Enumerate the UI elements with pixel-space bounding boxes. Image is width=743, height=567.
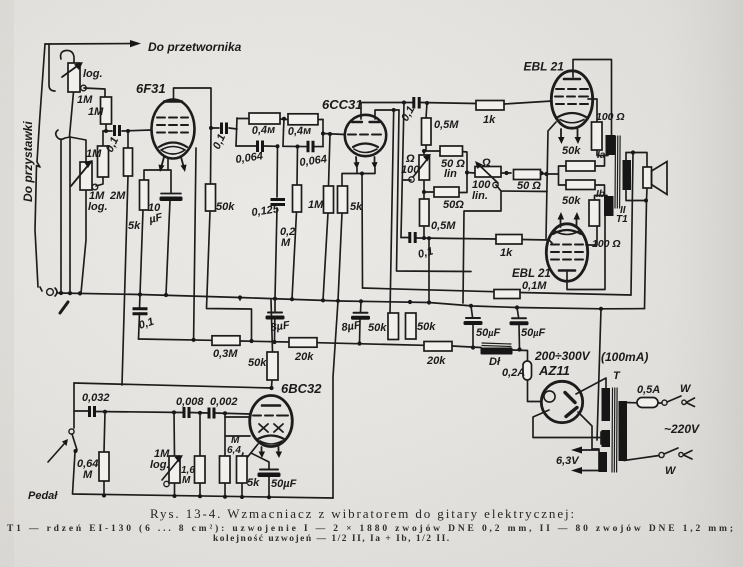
resistor 1k (upper grid stopper) [476, 101, 504, 111]
wire: bridged-T right node [322, 120, 324, 147]
resistor 1M (ch2 series) [98, 146, 109, 177]
svg-text:log.: log. [88, 201, 108, 213]
wire: 8uF2 between 0.125 line and rail [274, 299, 277, 342]
svg-text:1M: 1M [86, 148, 102, 160]
wire: II winding bottom return [626, 188, 647, 309]
resistor 5k (6BC32 cathode) [237, 456, 248, 483]
fuse 0,2A [523, 361, 532, 380]
wire: AZ11 filament return [533, 410, 601, 444]
wire: 6BC32 grid row [225, 416, 250, 418]
tube AZ11 [541, 381, 582, 422]
input jack symbol 0) [40, 287, 42, 291]
capacitor 0,1 (lower coupling to EBL21) [410, 232, 415, 243]
svg-text:1k: 1k [500, 247, 513, 259]
jack contact curl (channel 1) [61, 50, 74, 63]
svg-text:0,3M: 0,3M [213, 348, 238, 360]
svg-text:50 Ω: 50 Ω [517, 180, 541, 192]
resistor 100ohm (lower screen) [589, 200, 600, 226]
tube 6F31 [152, 100, 195, 159]
svg-text:6BC32: 6BC32 [281, 381, 322, 396]
wire: NFB riser to rail P [361, 174, 364, 289]
heater arrows 6F31 [161, 157, 164, 168]
wire: 50uF2 stubs [517, 308, 520, 350]
wire: 50k bottom, B+ step to rail [207, 211, 252, 341]
svg-text:0,5A: 0,5A [637, 384, 660, 396]
capacitor 0,1 (upper coupling to EBL21) [414, 97, 419, 109]
wire: B+ rail G [139, 339, 528, 361]
wire: 6CC31 anode2 row y110 [375, 110, 399, 119]
resistor 6,4M [220, 456, 231, 483]
capacitor 0,002 [209, 408, 214, 419]
capacitor 0,1 (screen bypass at bus) [133, 309, 148, 314]
svg-text:~220V: ~220V [664, 422, 700, 436]
wire: 8uF1 stub from bus [360, 301, 362, 343]
svg-text:0,1M: 0,1M [522, 280, 547, 292]
resistor 0,4M (right) [288, 114, 318, 125]
wire: pot 1M log top stub [173, 412, 176, 456]
wire: bridged-T mid riser [283, 119, 286, 130]
wire: pot1 wiper to 1M grid resistor [84, 88, 105, 97]
wire: vibrato box left edge + bottom edge [73, 383, 334, 498]
capacitor 0,064 (left) [258, 141, 263, 153]
wire: II winding to speaker top [626, 153, 647, 168]
wire: anode load 50k top stub [210, 128, 213, 184]
svg-text:5k: 5k [128, 220, 141, 232]
svg-text:0,4м: 0,4м [288, 125, 312, 138]
svg-text:50µF: 50µF [271, 478, 297, 490]
wire: 50ohm1 right + 50ohm2 right joined vertical [459, 152, 475, 193]
resistor 0,2M [293, 185, 302, 212]
wire: 6F31 anode riser [174, 88, 212, 128]
wire: ground bus [58, 293, 645, 309]
resistor 0,64M [99, 452, 109, 481]
power transformer T core [612, 388, 617, 472]
wire: 6.4M top stub + grid wire [225, 413, 250, 456]
svg-text:1M: 1M [77, 94, 93, 106]
tube EBL21 (lower, inverted) [546, 224, 587, 281]
capacitor 0,064 (right) [308, 141, 313, 153]
node: 1M ch2 top stub [102, 131, 104, 146]
resistor 0,4M (left) [249, 113, 280, 124]
output transformer T1 core [615, 136, 620, 208]
svg-text:Dł: Dł [489, 356, 501, 368]
wire: bridged-T top rail [237, 119, 323, 120]
wire: 5k cathode 6CC31 bottom through box edge [333, 213, 342, 498]
wire: x429 stub to bus [428, 238, 430, 302]
wire: 50k H1 right to Ia bottom node [595, 156, 608, 167]
resistor 20k (left) [289, 338, 317, 348]
svg-text:50k: 50k [562, 145, 581, 157]
svg-text:M: M [83, 469, 93, 481]
svg-text:log.: log. [83, 68, 103, 80]
potentiometer 1M log (channel 1) [68, 63, 80, 92]
output transformer T1 winding Ib [604, 196, 614, 216]
svg-text:20k: 20k [294, 351, 314, 363]
wire: mains switch top lead [658, 402, 662, 404]
junction dots on ground bus [59, 291, 63, 295]
resistor 0,5M (lower divider) [420, 199, 430, 226]
capacitor 8uF (right electrolytic) [354, 312, 368, 314]
svg-text:50k: 50k [562, 195, 581, 207]
switch blade slash at input [60, 302, 68, 313]
tube 6BC32 [250, 396, 293, 447]
speaker [643, 167, 652, 188]
resistor 100ohm (upper screen) [592, 122, 603, 150]
wire: pot2 out to 50ohm3 [501, 172, 511, 174]
wire: vibrato osc row y412 [74, 411, 250, 414]
fuse 0,5A [637, 398, 658, 408]
resistor 5k (6CC31 cathode) [338, 186, 348, 213]
svg-text:Ib: Ib [596, 189, 605, 200]
svg-text:kolejność uzwojeń — 1/2 II, Ia: kolejność uzwojeń — 1/2 II, Ia + Ib, 1/2… [213, 534, 451, 544]
wire: pot1 wiper tap to x404 vertical [403, 179, 412, 181]
svg-text:6,3V: 6,3V [556, 455, 580, 467]
svg-text:100 Ω: 100 Ω [596, 111, 625, 123]
wire: 1M ch2 bottom to wiper area [96, 177, 103, 186]
resistor 2M [124, 148, 133, 176]
power transformer T HV winding [602, 388, 611, 421]
node: 1M bottom to grid row [105, 124, 107, 131]
capacitor 50uF (left electrolytic) [466, 317, 480, 319]
svg-text:Pedał: Pedał [28, 490, 58, 502]
wire: EBL21 bottom anode loop [567, 216, 605, 290]
wire: 100ohm D top stub [595, 196, 605, 201]
switch W (top) [662, 400, 667, 405]
capacitor 0,008 [184, 407, 189, 418]
wire: 50k V3 from bus to box [239, 298, 241, 301]
pedal arrow [48, 444, 64, 462]
wire: 6BC32 cathode diagonal [246, 444, 269, 469]
svg-text:100: 100 [401, 164, 420, 176]
capacitor 0,032 [90, 406, 95, 417]
svg-text:6CC31: 6CC31 [322, 97, 362, 112]
wire: 0.5M bottom to 50ohm row [426, 145, 440, 151]
wire: mid node down through 0.125 to bus [275, 130, 284, 299]
wire: 6CC31 anode1 riser [360, 103, 362, 120]
resistor 50ohm (upper) [440, 146, 463, 156]
tube EBL21 (upper) [551, 71, 592, 128]
resistor 0,3M [212, 336, 240, 346]
capacitor 10uF (electrolytic) [161, 193, 181, 195]
potentiometer 1M log (channel 2) [80, 162, 92, 190]
wire: 0.5M top stub [426, 103, 427, 118]
svg-text:100 Ω: 100 Ω [592, 238, 621, 250]
svg-text:0,032: 0,032 [82, 392, 110, 404]
wire: bridged-T cap rail [236, 145, 323, 148]
svg-text:Rys. 13-4. Wzmacniacz z wibrat: Rys. 13-4. Wzmacniacz z wibratorem do gi… [150, 506, 576, 521]
resistor 1M (grid ch1) [101, 97, 112, 124]
wire: 50uF1 stubs [471, 306, 473, 348]
wire: 50k H2 right to Ib top node [595, 185, 607, 196]
capacitor 8uF (left electrolytic) [268, 312, 282, 314]
wire: pot1 vibrato top stub [423, 151, 425, 155]
potentiometer 100ohm lin (horizontal) [475, 167, 501, 178]
arrowhead Do przetwornika [130, 40, 141, 47]
wire: coupling row to bridged-T left node [229, 128, 237, 129]
svg-text:50Ω: 50Ω [443, 199, 464, 211]
wire: vibrato box top edge [74, 383, 272, 388]
resistor 0,5M (upper divider) [422, 118, 432, 145]
svg-text:50k: 50k [248, 357, 267, 369]
resistor 1k (lower grid stopper) [496, 235, 522, 245]
switch W (bottom) [659, 452, 664, 457]
wire: 2M bottom down to vibrato box top [122, 176, 128, 385]
wire: mains bottom lead [624, 456, 659, 461]
wire: 0.2M stub from cap rail [292, 147, 298, 300]
heater arrows EBL21 lower (pointing up) [560, 218, 562, 227]
svg-text:200÷300V: 200÷300V [534, 349, 591, 363]
wire: 10uF bottom to bus [166, 200, 170, 295]
resistor 50k (decoupling V1) [388, 313, 399, 340]
svg-text:1k: 1k [483, 114, 496, 126]
wire: 6F31 anode to coupling row [211, 127, 219, 129]
wire: 0.64M top stub [104, 412, 105, 452]
svg-text:5k: 5k [247, 477, 260, 489]
resistor 1M (6CC31 grid) [324, 186, 334, 213]
output transformer T1 winding Ia [606, 135, 616, 155]
svg-text:T1: T1 [616, 214, 628, 225]
wire: pot1 bottom down [70, 92, 74, 136]
svg-text:6F31: 6F31 [136, 81, 166, 96]
resistor 50ohm (lower) [434, 187, 459, 197]
wire: 1M grid leak 6CC31 [323, 134, 330, 300]
svg-text:Do przetwornika: Do przetwornika [148, 40, 242, 54]
svg-text:50µF: 50µF [521, 327, 545, 339]
wire: pot2 wiper run [463, 185, 547, 303]
svg-text:1M: 1M [88, 106, 104, 118]
svg-text:log.: log. [150, 459, 170, 471]
wire: grid row of 6F31 (y131) [103, 130, 112, 132]
resistor 5k (6F31 cathode) [140, 180, 149, 210]
svg-text:20k: 20k [426, 355, 446, 367]
tube 6CC31 [345, 115, 386, 156]
svg-text:Do przystawki: Do przystawki [21, 121, 35, 202]
wire: lower coupling row y238 [401, 238, 552, 244]
power transformer T rectifier heater winding [602, 430, 611, 447]
wire: long balance vertical x547 [546, 122, 556, 239]
svg-text:0,4м: 0,4м [252, 124, 276, 137]
wire: x404 vertical top row to lower coupling row [401, 103, 404, 238]
wire: vibrato bottom row stubs [104, 477, 269, 497]
wire: channel-2 verticals to ground bus [60, 140, 62, 293]
resistor 20k (right) [424, 342, 452, 352]
wire: inner vertical jack contact [49, 44, 55, 91]
svg-text:lin: lin [444, 168, 457, 180]
svg-text:2M: 2M [109, 190, 126, 202]
wire: pot2 top stub [70, 137, 86, 162]
wire: EBL21 top screen [588, 99, 597, 122]
wire: 6CC31 cathode row [342, 168, 375, 186]
resistor 50k (upper feedback) [566, 161, 595, 171]
capacitor 50uF (right electrolytic) [512, 317, 526, 319]
svg-text:M: M [182, 475, 191, 486]
wire: output to converter (top) [45, 43, 131, 46]
potentiometer 100ohm lin (vertical) [419, 155, 430, 180]
wire: 6.3V leads with arrows [577, 449, 599, 451]
capacitor 0,1 (ch1 input) [115, 125, 120, 136]
pedal switch contact [69, 429, 74, 434]
wire: pot2 bottom to bus [81, 190, 86, 293]
svg-text:T1 — rdzeń EI-130 (6 ... 8 cm²: T1 — rdzeń EI-130 (6 ... 8 cm²): uzwojen… [7, 523, 736, 534]
power transformer T 6.3V winding [599, 452, 608, 472]
capacitor 0,125 [271, 200, 286, 205]
heater arrows 6CC31 [355, 157, 358, 164]
wire: pot1 bottom to 50ohm2 row [424, 180, 434, 192]
svg-text:AZ11: AZ11 [538, 363, 570, 378]
wire: 5k vib top [242, 453, 243, 456]
svg-text:(100mA): (100mA) [601, 350, 648, 364]
resistor 50k (lower feedback) [566, 180, 595, 190]
node: 2M top stub [127, 131, 129, 148]
resistor 50k (V3 vibrato feed) [267, 352, 278, 380]
resistor 50k (decoupling V2) [406, 313, 417, 339]
svg-text:Ω: Ω [481, 157, 491, 169]
wire: 0.5M#2 top stub [423, 192, 425, 199]
heater arrows EBL21 upper [560, 129, 562, 139]
svg-text:6,4: 6,4 [227, 445, 241, 456]
svg-text:0,2A: 0,2A [502, 367, 525, 379]
wire: B+ vertical 100mA [597, 309, 601, 440]
wire: NFB rail riser to voice coil tap [631, 153, 633, 296]
wire: screen bypass 0.1 cap to bus [139, 295, 141, 340]
wire: 50k H resistors left stubs [547, 166, 567, 185]
svg-text:1M: 1M [308, 199, 324, 211]
jack contact curl (channel 2) [56, 130, 70, 139]
svg-text:0,008: 0,008 [176, 396, 204, 408]
wire: 0.5M#2 bottom to lower row [423, 226, 425, 238]
svg-text:50k: 50k [216, 201, 235, 213]
svg-text:50k: 50k [368, 322, 387, 334]
svg-text:lin.: lin. [472, 190, 488, 202]
svg-text:0,5M: 0,5M [434, 119, 459, 131]
choke Dl [482, 343, 511, 347]
wire: NFB rail P [363, 288, 632, 295]
potentiometer 1M log (vibrato) [169, 456, 180, 483]
svg-text:W: W [665, 465, 677, 477]
wire: 6F31 cathode row [144, 158, 171, 193]
resistor 50ohm (right) [514, 170, 541, 180]
resistor 1,6M [195, 456, 206, 483]
wire: 100ohm A bottom stub [597, 150, 605, 156]
wire: EBL21 top anode loop [573, 60, 612, 136]
resistor 0,1M (NFB) [494, 290, 520, 299]
svg-text:50µF: 50µF [476, 327, 500, 339]
svg-text:0,5M: 0,5M [431, 220, 456, 232]
svg-text:0,002: 0,002 [210, 396, 238, 408]
wire: left input vertical (jack hot) [35, 44, 45, 287]
capacitor 0,1 (6F31 coupling) [222, 123, 227, 135]
wire: screen 6F31 down to B+ rail [194, 148, 196, 339]
wire: 5k bottom to bus [140, 210, 143, 295]
svg-text:Ia: Ia [597, 150, 606, 161]
wire: fuse 0.2A to AZ11 [528, 380, 542, 402]
wire: bridged-T left node vertical [236, 118, 237, 146]
svg-text:50k: 50k [417, 321, 436, 333]
svg-text:EBL 21: EBL 21 [512, 268, 551, 280]
wire: AZ11 anode bottom lead [578, 412, 599, 449]
wire: 50ohm3 right to feedback node [537, 173, 547, 174]
wire: 50k load1 long vertical [390, 110, 394, 313]
capacitor 50uF (vibrato electrolytic) [260, 469, 278, 471]
wire: AZ11 anode top lead [576, 378, 606, 394]
svg-text:W: W [680, 383, 692, 395]
output transformer T1 winding II [623, 160, 632, 190]
wire: grid feed to 6CC31 [323, 134, 345, 135]
wire: EBL21 bottom screen [586, 226, 597, 245]
power transformer T mains winding [619, 401, 628, 461]
svg-text:M: M [281, 237, 291, 249]
wire: anode2 vertical to B+ corner [397, 110, 472, 272]
svg-text:5k: 5k [350, 201, 363, 213]
svg-text:EBL 21: EBL 21 [524, 60, 565, 74]
wire: mains fuse lead [626, 402, 637, 404]
resistor 50k (6F31 anode load) [206, 184, 216, 211]
wire: upper coupling row y102 [361, 101, 552, 104]
heater arrows 6BC32 [261, 447, 263, 453]
wire: 1.6M top stub [199, 413, 201, 456]
